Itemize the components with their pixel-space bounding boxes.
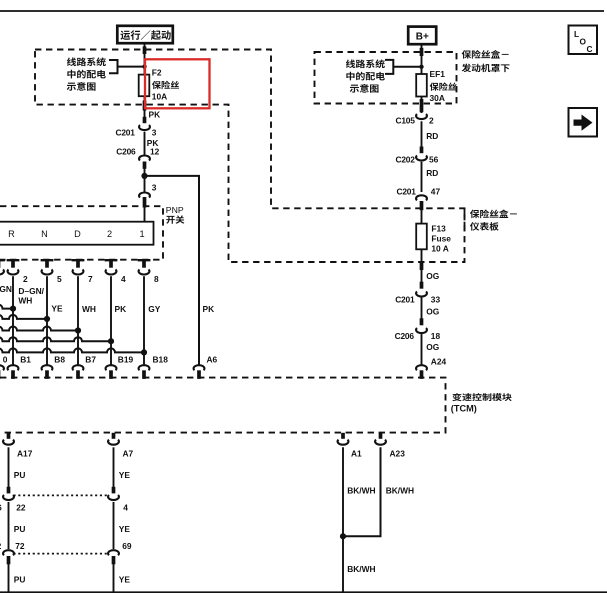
svg-text:A17: A17 bbox=[17, 449, 33, 459]
wire (YE) to bottom bbox=[113, 563, 115, 593]
svg-text:18: 18 bbox=[431, 331, 441, 341]
svg-text:8: 8 bbox=[154, 274, 159, 284]
svg-text:A24: A24 bbox=[431, 356, 447, 366]
svg-text:BK/WH: BK/WH bbox=[347, 564, 375, 574]
label underhood fusebox bbox=[462, 50, 509, 59]
PNP switch output pin 2 (stub + cup) bbox=[7, 259, 20, 261]
svg-text:C206: C206 bbox=[116, 146, 136, 156]
svg-text:22: 22 bbox=[16, 502, 26, 512]
svg-text:YE: YE bbox=[119, 524, 131, 534]
svg-text:(TCM): (TCM) bbox=[451, 404, 477, 414]
node B+ label box bbox=[408, 27, 436, 45]
wire (PU) to bottom bbox=[8, 563, 10, 593]
wire branch to TCM pin A6 bbox=[145, 176, 200, 366]
fuse F13 10A bbox=[416, 224, 427, 250]
svg-text:WH: WH bbox=[82, 304, 96, 314]
svg-text:33: 33 bbox=[431, 294, 441, 304]
svg-text:0: 0 bbox=[3, 354, 8, 364]
wire PNP pin5 to TCM B8 bbox=[46, 276, 48, 365]
wire stub crossing IP fusebox top edge bbox=[143, 46, 147, 54]
svg-text:WH: WH bbox=[18, 295, 32, 305]
PNP switch dashed box bbox=[0, 206, 163, 260]
svg-text:C202: C202 bbox=[396, 155, 416, 165]
svg-text:R: R bbox=[8, 229, 15, 239]
svg-text:A6: A6 bbox=[207, 354, 218, 364]
junction node on EF1 feed wire bbox=[419, 65, 423, 69]
inline connector row pins 72 / 69 (cup + stub inverted, dotted body) bbox=[3, 550, 14, 555]
connector body (dotted) bbox=[14, 494, 110, 496]
forward arrow icon box bbox=[569, 108, 598, 137]
svg-text:C201: C201 bbox=[116, 127, 136, 137]
svg-text:56: 56 bbox=[429, 155, 439, 165]
svg-text:C201: C201 bbox=[395, 294, 415, 304]
TCM output pin A23 (stub + cup) bbox=[379, 433, 383, 439]
svg-text:B+: B+ bbox=[416, 32, 429, 43]
svg-text:1: 1 bbox=[139, 229, 144, 239]
svg-text:N: N bbox=[41, 229, 48, 239]
underhood fuse box (box B) dashed outline bbox=[315, 52, 457, 104]
wire PNP pin8 to TCM B18 bbox=[143, 276, 145, 365]
junction node on pin8 wire bbox=[141, 349, 147, 355]
wire TCM A7 down (YE) bbox=[113, 447, 115, 487]
PNP switch output pin 8 (stub + cup) bbox=[138, 259, 151, 261]
svg-text:47: 47 bbox=[431, 186, 441, 196]
connector C206 pin 12 (inline, inverted) bbox=[139, 156, 150, 161]
svg-text:F2: F2 bbox=[152, 68, 162, 78]
svg-text:OG: OG bbox=[426, 306, 439, 316]
svg-text:4: 4 bbox=[123, 502, 128, 512]
svg-text:C105: C105 bbox=[396, 115, 416, 125]
wire (YE) bbox=[113, 502, 115, 549]
wire PNP pin7 to TCM B7 bbox=[77, 276, 79, 365]
connector body (dotted) bbox=[14, 553, 110, 555]
bracket from note text to wire bbox=[109, 60, 145, 73]
svg-text:YE: YE bbox=[51, 303, 63, 313]
bus wire (joins pin5 wire), hop over pin2 wire bbox=[0, 315, 47, 319]
PNP switch output pin 5 (stub + cup) bbox=[41, 259, 54, 261]
svg-text:PNP: PNP bbox=[166, 205, 184, 215]
wire stub crossing underhood fusebox top edge bbox=[420, 48, 424, 56]
svg-text:72: 72 bbox=[15, 541, 25, 551]
svg-text:A23: A23 bbox=[390, 449, 406, 459]
TCM output pin A7 (stub + cup) bbox=[112, 433, 116, 439]
TCM dashed box bbox=[0, 378, 446, 433]
svg-text:A7: A7 bbox=[123, 449, 134, 459]
svg-text:B18: B18 bbox=[153, 354, 169, 364]
wire from B+ box bbox=[421, 45, 423, 75]
bus wire (joins pin8 wire), hops bbox=[0, 348, 144, 352]
bracket from note text to wire bbox=[385, 60, 422, 74]
svg-text:EF1: EF1 bbox=[430, 69, 446, 79]
svg-text:4: 4 bbox=[121, 274, 126, 284]
svg-text:RD: RD bbox=[426, 168, 438, 178]
LOC reference icon box bbox=[569, 26, 598, 55]
svg-text:BK/WH: BK/WH bbox=[386, 485, 414, 495]
TCM entry pin at x=-1.5 (cup + stub) bbox=[0, 365, 4, 370]
svg-text:B8: B8 bbox=[54, 354, 65, 364]
svg-text:BK/WH: BK/WH bbox=[347, 485, 375, 495]
svg-text:PK: PK bbox=[203, 304, 215, 314]
svg-text:3: 3 bbox=[152, 182, 157, 192]
wire from RUN/START box bbox=[144, 45, 146, 76]
red highlight rectangle bbox=[145, 59, 210, 108]
svg-text:C: C bbox=[587, 44, 593, 54]
fuse EF1 30A bbox=[416, 74, 427, 97]
PNP switch output pin cut (stub + cup) bbox=[0, 259, 5, 261]
connector C206 pin 18 (inline) bbox=[420, 318, 424, 325]
inline connector row pins 22 / 4 (stub + cup, dotted connector body) bbox=[7, 487, 11, 494]
bus wire (joins pin7 wire), hops bbox=[0, 327, 78, 331]
TCM entry pin at x=47 (cup + stub) bbox=[42, 365, 53, 370]
wire below EF1, stub crossing box B bottom edge bbox=[421, 97, 423, 114]
wire below F13, stub crossing IP fusebox bottom edge bbox=[421, 249, 423, 282]
svg-text:10 A: 10 A bbox=[431, 244, 448, 254]
svg-text:F13: F13 bbox=[431, 224, 446, 234]
svg-text:YE: YE bbox=[119, 470, 131, 480]
TCM output pin A1 (stub + cup) bbox=[341, 433, 345, 439]
connector C201 pin 33 (inline) bbox=[420, 282, 424, 289]
PNP switch output pin 4 (stub + cup) bbox=[105, 259, 118, 261]
bus wire (joins pin4 wire), hops bbox=[0, 337, 111, 341]
wire (PU) bbox=[8, 502, 10, 549]
svg-text:GY: GY bbox=[148, 304, 161, 314]
TCM output pin A17 (stub + cup) bbox=[7, 433, 11, 439]
svg-text:2: 2 bbox=[23, 274, 28, 284]
wire PNP pin2 to TCM B1 bbox=[12, 276, 14, 365]
svg-text:PK: PK bbox=[115, 304, 127, 314]
wire PNP pin4 to TCM B19 bbox=[110, 276, 112, 365]
svg-text:2: 2 bbox=[429, 115, 434, 125]
TCM entry pin at x=78 (cup + stub) bbox=[73, 365, 84, 370]
TCM entry pin at x=111 (cup + stub) bbox=[106, 365, 117, 370]
svg-text:PU: PU bbox=[14, 470, 26, 480]
arrow glyph bbox=[574, 115, 593, 131]
junction node on pin2 wire bbox=[10, 306, 16, 312]
svg-text:12: 12 bbox=[150, 146, 160, 156]
junction node on pin4 wire bbox=[108, 338, 114, 344]
TCM entry pin at x=199 (cup + stub) bbox=[194, 365, 205, 370]
junction node (branch to A6) bbox=[141, 173, 147, 179]
TCM entry pin A24 (cup + stub) bbox=[416, 365, 427, 370]
svg-text:Fuse: Fuse bbox=[431, 234, 451, 244]
svg-text:OG: OG bbox=[426, 342, 439, 352]
connector C105 pin 2 (inline) bbox=[416, 114, 427, 119]
TCM entry pin at x=13 (cup + stub) bbox=[8, 365, 19, 370]
svg-text:B7: B7 bbox=[85, 354, 96, 364]
TCM entry pin at x=144 (cup + stub) bbox=[139, 365, 150, 370]
junction node on F2 feed wire bbox=[142, 64, 146, 68]
node RUN/START label box bbox=[117, 26, 173, 43]
junction node on pin5 wire bbox=[44, 316, 50, 322]
fuse F2 10A bbox=[139, 75, 150, 97]
label IP fusebox bbox=[464, 208, 466, 233]
svg-text:2: 2 bbox=[107, 229, 112, 239]
svg-text:69: 69 bbox=[122, 541, 132, 551]
wire TCM A1 down (BK/WH) bbox=[342, 447, 344, 593]
svg-text:5: 5 bbox=[57, 274, 62, 284]
svg-text:D: D bbox=[74, 229, 81, 239]
connector C202 pin 56 (inline) bbox=[420, 147, 424, 154]
svg-text:GN: GN bbox=[0, 284, 12, 294]
svg-text:C206: C206 bbox=[395, 331, 415, 341]
svg-text:PU: PU bbox=[14, 575, 26, 585]
wire stub crossing box A lower edge bbox=[143, 101, 147, 111]
bus wire (from left, joins pin2 wire) bbox=[0, 305, 13, 309]
svg-text:YE: YE bbox=[119, 575, 131, 585]
wire TCM A23 down joins A1 (BK/WH) bbox=[343, 447, 381, 536]
junction node on pin7 wire bbox=[75, 327, 81, 333]
label TCM (transmission control module) bbox=[452, 393, 511, 401]
note text: power distribution schematic (left) bbox=[67, 57, 106, 66]
svg-text:10A: 10A bbox=[152, 92, 167, 102]
svg-text:30A: 30A bbox=[430, 93, 445, 103]
bottom border line bbox=[0, 591, 607, 593]
svg-text:B1: B1 bbox=[20, 354, 31, 364]
svg-text:O: O bbox=[580, 37, 587, 47]
svg-text:L: L bbox=[574, 29, 579, 39]
svg-text:PK: PK bbox=[149, 109, 161, 119]
wire TCM A17 down (PU) bbox=[8, 447, 10, 487]
connector C201 pin 3 (inline, male stub + female cup) bbox=[143, 117, 147, 123]
gear selector contact box R N D 2 1 bbox=[0, 222, 154, 245]
svg-text:RD: RD bbox=[426, 131, 438, 141]
junction node A1/A23 bbox=[340, 533, 346, 539]
svg-text:7: 7 bbox=[88, 274, 93, 284]
svg-text:A1: A1 bbox=[351, 449, 362, 459]
svg-text:PU: PU bbox=[14, 524, 26, 534]
svg-text:3: 3 bbox=[152, 127, 157, 137]
connector C201 pin 47 into IP fusebox (cup + stub) bbox=[416, 195, 427, 200]
svg-text:C201: C201 bbox=[397, 186, 417, 196]
top border line bbox=[0, 10, 604, 12]
note text: power distribution schematic (right) bbox=[346, 59, 385, 68]
IP fuse box (box A) dashed outline bbox=[35, 50, 465, 263]
PNP switch output pin 7 (stub + cup) bbox=[72, 259, 85, 261]
connector pin 3 into PNP switch (cup + stub) bbox=[144, 176, 146, 192]
svg-text:OG: OG bbox=[426, 271, 439, 281]
svg-text:B19: B19 bbox=[118, 354, 134, 364]
